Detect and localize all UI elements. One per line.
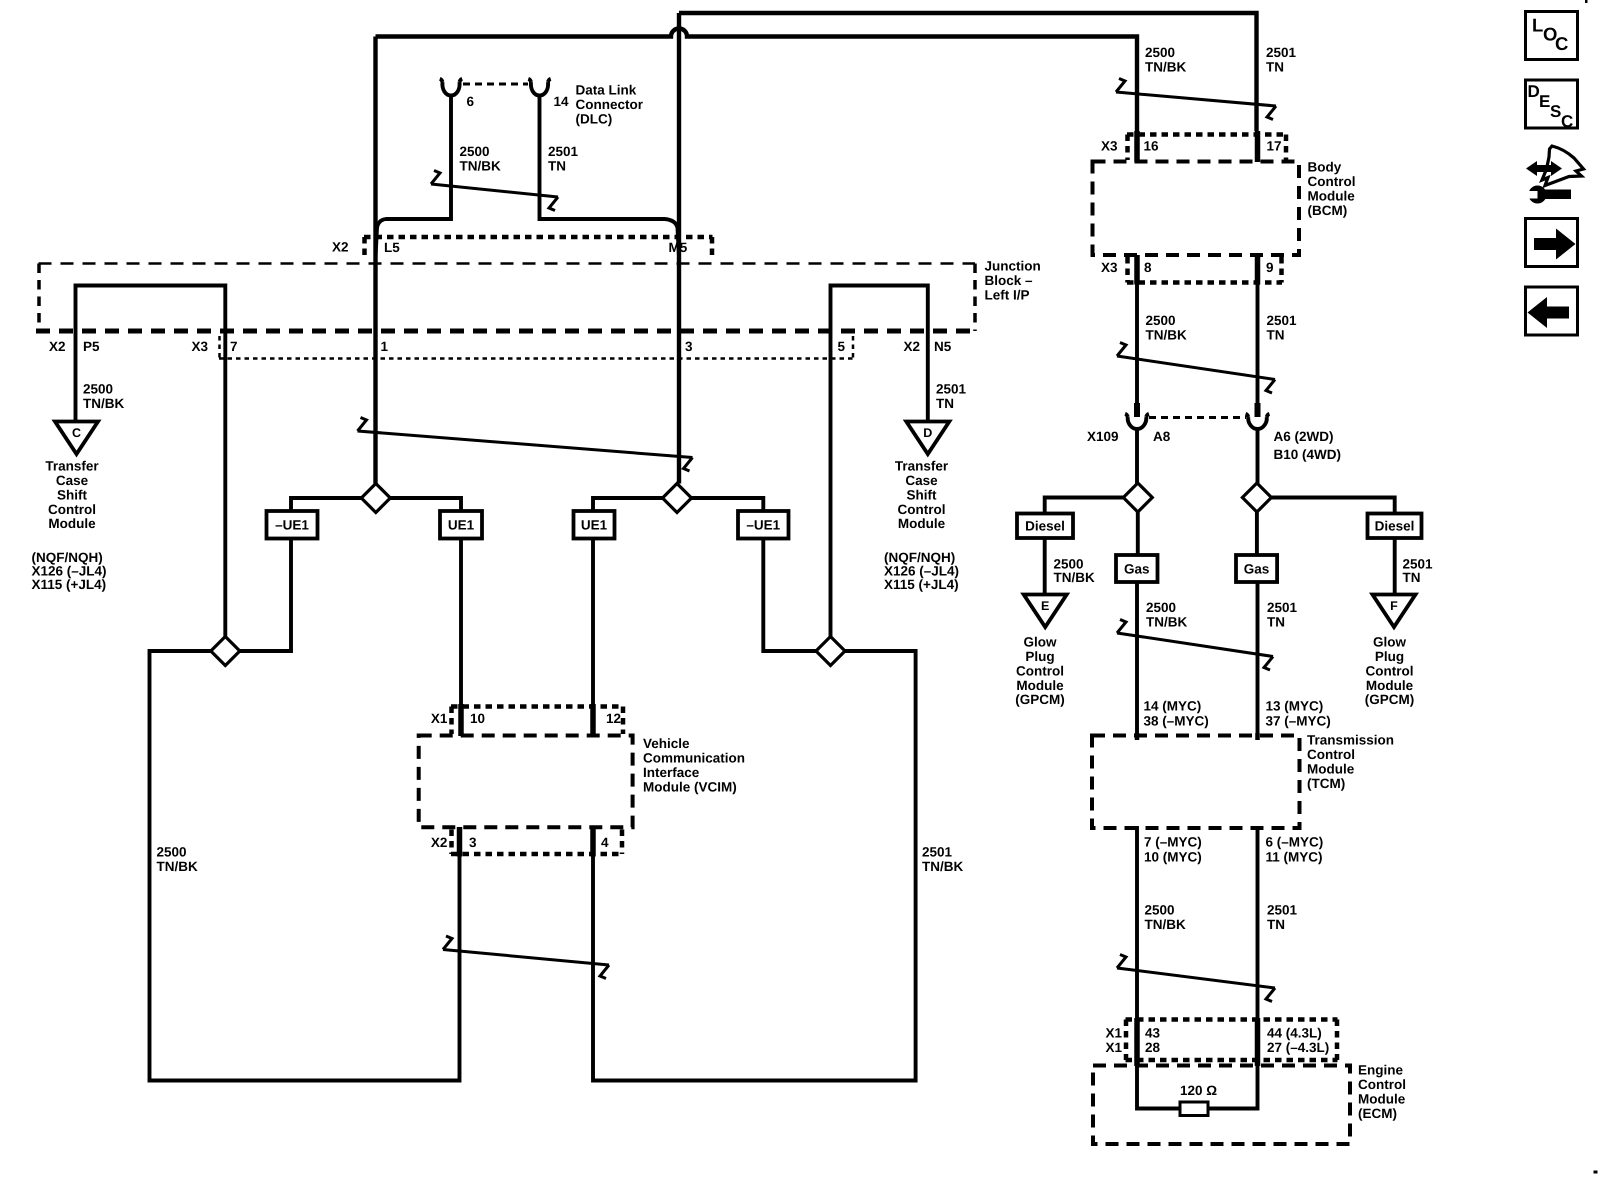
svg-text:Interface: Interface bbox=[643, 765, 700, 780]
svg-text:14: 14 bbox=[554, 94, 570, 109]
svg-text:13 (MYC): 13 (MYC) bbox=[1266, 698, 1324, 713]
svg-text:2500: 2500 bbox=[460, 144, 490, 159]
svg-text:A8: A8 bbox=[1153, 429, 1171, 444]
svg-text:2500: 2500 bbox=[1145, 45, 1175, 60]
svg-text:14 (MYC): 14 (MYC) bbox=[1144, 698, 1202, 713]
svg-text:Gas: Gas bbox=[1244, 561, 1270, 576]
svg-text:2501: 2501 bbox=[1267, 902, 1298, 917]
svg-text:1: 1 bbox=[381, 339, 389, 354]
svg-text:3: 3 bbox=[469, 835, 477, 850]
svg-text:N5: N5 bbox=[934, 339, 952, 354]
svg-text:Left I/P: Left I/P bbox=[985, 287, 1030, 302]
svg-text:2501: 2501 bbox=[1266, 45, 1297, 60]
svg-text:Communication: Communication bbox=[643, 750, 745, 765]
svg-text:27 (–4.3L): 27 (–4.3L) bbox=[1267, 1040, 1329, 1055]
svg-text:TN: TN bbox=[548, 158, 566, 173]
svg-text:TN: TN bbox=[1267, 917, 1285, 932]
svg-text:Transmission: Transmission bbox=[1307, 732, 1394, 747]
svg-text:120 Ω: 120 Ω bbox=[1180, 1083, 1217, 1098]
svg-text:2500: 2500 bbox=[157, 844, 187, 859]
svg-text:X1: X1 bbox=[431, 711, 448, 726]
svg-text:X2: X2 bbox=[332, 240, 349, 255]
svg-text:3: 3 bbox=[685, 339, 693, 354]
svg-text:Module: Module bbox=[48, 516, 96, 531]
svg-text:12: 12 bbox=[606, 711, 621, 726]
svg-text:–UE1: –UE1 bbox=[746, 518, 780, 533]
svg-text:(GPCM): (GPCM) bbox=[1365, 692, 1415, 707]
svg-text:(ECM): (ECM) bbox=[1358, 1106, 1397, 1121]
svg-text:M5: M5 bbox=[669, 240, 688, 255]
svg-text:TN/BK: TN/BK bbox=[922, 859, 963, 874]
svg-text:TN/BK: TN/BK bbox=[1145, 917, 1186, 932]
svg-text:Plug: Plug bbox=[1025, 649, 1054, 664]
svg-text:X115 (+JL4): X115 (+JL4) bbox=[32, 577, 107, 592]
svg-text:Module: Module bbox=[1308, 188, 1356, 203]
svg-text:Junction: Junction bbox=[985, 258, 1041, 273]
svg-text:S: S bbox=[1550, 102, 1561, 121]
svg-text:(BCM): (BCM) bbox=[1308, 203, 1348, 218]
svg-text:10 (MYC): 10 (MYC) bbox=[1144, 850, 1202, 865]
svg-text:Control: Control bbox=[898, 502, 946, 517]
svg-text:Shift: Shift bbox=[57, 487, 87, 502]
svg-text:Transfer: Transfer bbox=[895, 458, 949, 473]
svg-text:Diesel: Diesel bbox=[1025, 519, 1065, 534]
svg-text:38 (–MYC): 38 (–MYC) bbox=[1144, 714, 1209, 729]
svg-text:Transfer: Transfer bbox=[45, 458, 99, 473]
svg-text:TN/BK: TN/BK bbox=[460, 158, 501, 173]
svg-text:Vehicle: Vehicle bbox=[643, 736, 690, 751]
svg-text:7: 7 bbox=[230, 339, 238, 354]
svg-text:Module: Module bbox=[1307, 761, 1355, 776]
svg-text:Control: Control bbox=[1016, 663, 1064, 678]
svg-text:Data Link: Data Link bbox=[576, 82, 637, 97]
svg-text:Glow: Glow bbox=[1373, 634, 1406, 649]
svg-text:TN: TN bbox=[1267, 327, 1285, 342]
svg-text:X3: X3 bbox=[1101, 139, 1118, 154]
svg-text:TN/BK: TN/BK bbox=[1145, 59, 1186, 74]
svg-text:TN/BK: TN/BK bbox=[1146, 614, 1187, 629]
svg-text:Block –: Block – bbox=[985, 273, 1034, 288]
svg-text:TN: TN bbox=[1266, 59, 1284, 74]
svg-text:–UE1: –UE1 bbox=[275, 518, 309, 533]
svg-text:TN/BK: TN/BK bbox=[83, 396, 124, 411]
svg-text:C: C bbox=[1561, 112, 1573, 131]
svg-text:2500: 2500 bbox=[83, 381, 113, 396]
svg-text:D: D bbox=[1528, 82, 1540, 101]
svg-text:2500: 2500 bbox=[1146, 313, 1176, 328]
svg-text:17: 17 bbox=[1267, 139, 1282, 154]
svg-text:TN: TN bbox=[1403, 570, 1421, 585]
svg-text:X1: X1 bbox=[1106, 1025, 1123, 1040]
svg-text:Module: Module bbox=[1366, 678, 1414, 693]
svg-text:Engine: Engine bbox=[1358, 1062, 1403, 1077]
svg-text:X2: X2 bbox=[49, 339, 66, 354]
svg-text:B10 (4WD): B10 (4WD) bbox=[1274, 447, 1342, 462]
svg-text:2500: 2500 bbox=[1145, 902, 1175, 917]
svg-text:E: E bbox=[1539, 92, 1550, 111]
svg-text:37 (–MYC): 37 (–MYC) bbox=[1266, 714, 1331, 729]
svg-text:C: C bbox=[1555, 33, 1568, 54]
svg-text:TN/BK: TN/BK bbox=[1054, 570, 1095, 585]
svg-text:D: D bbox=[923, 426, 932, 440]
svg-text:6: 6 bbox=[467, 94, 475, 109]
svg-text:Control: Control bbox=[1307, 747, 1355, 762]
svg-text:10: 10 bbox=[470, 711, 485, 726]
svg-text:Module (VCIM): Module (VCIM) bbox=[643, 779, 737, 794]
svg-text:X1: X1 bbox=[1106, 1040, 1123, 1055]
svg-text:9: 9 bbox=[1266, 260, 1274, 275]
svg-text:Connector: Connector bbox=[576, 97, 644, 112]
svg-text:(TCM): (TCM) bbox=[1307, 776, 1345, 791]
svg-text:43: 43 bbox=[1145, 1025, 1161, 1040]
svg-text:Control: Control bbox=[1366, 663, 1414, 678]
svg-text:Control: Control bbox=[1358, 1077, 1406, 1092]
svg-text:5: 5 bbox=[838, 339, 846, 354]
svg-text:2501: 2501 bbox=[548, 144, 579, 159]
svg-text:L5: L5 bbox=[384, 240, 400, 255]
svg-text:UE1: UE1 bbox=[448, 518, 475, 533]
svg-text:X109: X109 bbox=[1087, 429, 1119, 444]
svg-text:X2: X2 bbox=[904, 339, 921, 354]
svg-text:Case: Case bbox=[905, 473, 938, 488]
svg-text:X3: X3 bbox=[1101, 260, 1118, 275]
svg-text:X115 (+JL4): X115 (+JL4) bbox=[884, 577, 959, 592]
svg-text:6 (–MYC): 6 (–MYC) bbox=[1266, 834, 1324, 849]
svg-text:11 (MYC): 11 (MYC) bbox=[1266, 850, 1323, 865]
svg-text:Control: Control bbox=[1308, 174, 1356, 189]
svg-text:7 (–MYC): 7 (–MYC) bbox=[1144, 834, 1202, 849]
svg-text:2501: 2501 bbox=[922, 844, 953, 859]
svg-text:Plug: Plug bbox=[1375, 649, 1404, 664]
svg-text:2501: 2501 bbox=[1267, 600, 1298, 615]
svg-text:F: F bbox=[1390, 599, 1398, 613]
svg-text:28: 28 bbox=[1145, 1040, 1161, 1055]
svg-text:Module: Module bbox=[1358, 1091, 1406, 1106]
svg-text:P5: P5 bbox=[83, 339, 100, 354]
svg-text:Shift: Shift bbox=[907, 487, 937, 502]
svg-text:Module: Module bbox=[898, 516, 946, 531]
svg-text:4: 4 bbox=[601, 835, 609, 850]
svg-text:44 (4.3L): 44 (4.3L) bbox=[1267, 1025, 1322, 1040]
svg-text:Gas: Gas bbox=[1124, 561, 1150, 576]
svg-text:Diesel: Diesel bbox=[1375, 519, 1415, 534]
svg-text:E: E bbox=[1041, 599, 1049, 613]
svg-text:Glow: Glow bbox=[1024, 634, 1057, 649]
svg-text:L: L bbox=[1532, 15, 1543, 36]
svg-text:16: 16 bbox=[1144, 139, 1160, 154]
svg-text:TN: TN bbox=[936, 396, 954, 411]
svg-text:2501: 2501 bbox=[936, 381, 967, 396]
svg-text:Body: Body bbox=[1308, 159, 1342, 174]
svg-text:2501: 2501 bbox=[1267, 313, 1298, 328]
svg-text:C: C bbox=[72, 426, 81, 440]
svg-text:(GPCM): (GPCM) bbox=[1015, 692, 1065, 707]
svg-text:2500: 2500 bbox=[1146, 600, 1176, 615]
svg-text:Module: Module bbox=[1016, 678, 1064, 693]
svg-text:TN/BK: TN/BK bbox=[1146, 327, 1187, 342]
svg-text:X2: X2 bbox=[431, 835, 448, 850]
svg-text:X3: X3 bbox=[192, 339, 209, 354]
svg-text:Control: Control bbox=[48, 502, 96, 517]
svg-text:TN: TN bbox=[1267, 614, 1285, 629]
svg-text:8: 8 bbox=[1144, 260, 1152, 275]
svg-text:(DLC): (DLC) bbox=[576, 111, 613, 126]
svg-text:TN/BK: TN/BK bbox=[157, 859, 198, 874]
svg-text:A6 (2WD): A6 (2WD) bbox=[1274, 429, 1334, 444]
svg-text:Case: Case bbox=[56, 473, 89, 488]
svg-text:UE1: UE1 bbox=[581, 518, 608, 533]
